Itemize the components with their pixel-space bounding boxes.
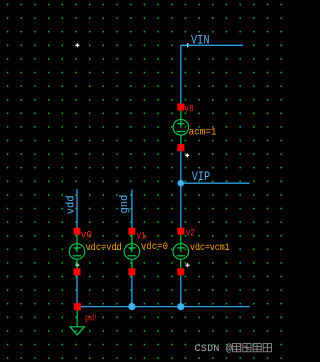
svg-text:vdc=vdd: vdc=vdd (85, 242, 122, 254)
svg-text:gnd: gnd (119, 195, 131, 214)
svg-text:vdc=vcm1: vdc=vcm1 (190, 242, 230, 254)
svg-text:VIN: VIN (191, 32, 210, 47)
svg-text:CSDN @: CSDN @ (195, 343, 233, 355)
svg-text:acm=1: acm=1 (189, 127, 217, 139)
svg-text:VIP: VIP (192, 169, 210, 184)
svg-text:vdd: vdd (65, 195, 77, 214)
svg-text:gnd!: gnd! (85, 314, 97, 324)
svg-text:v0: v0 (81, 230, 92, 241)
svg-text:vdc=0: vdc=0 (141, 241, 168, 253)
svg-text:v2: v2 (186, 229, 195, 240)
svg-text:v8: v8 (184, 104, 193, 115)
